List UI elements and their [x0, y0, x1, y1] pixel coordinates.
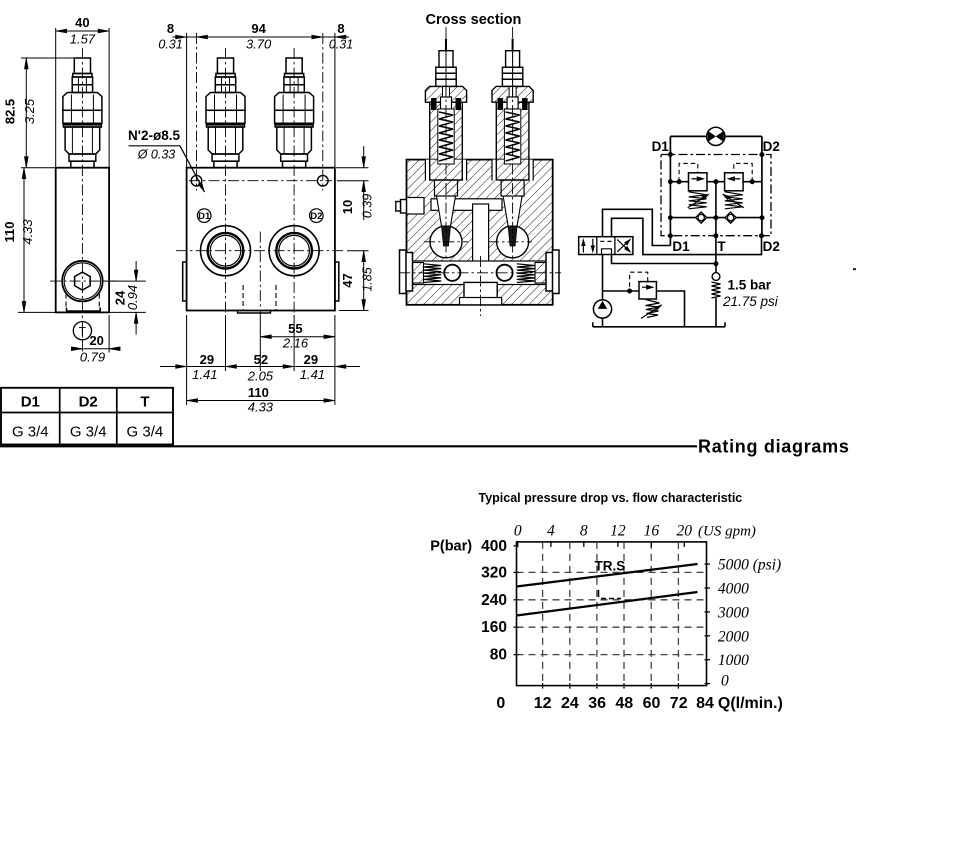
- svg-text:0: 0: [721, 673, 729, 690]
- svg-text:Cross section: Cross section: [426, 12, 522, 28]
- svg-text:T: T: [717, 239, 726, 254]
- svg-text:Q(l/min.): Q(l/min.): [718, 695, 783, 712]
- svg-text:29: 29: [200, 352, 214, 367]
- svg-text:3000: 3000: [717, 604, 749, 621]
- svg-text:TR.S: TR.S: [595, 559, 626, 574]
- svg-text:5000 (psi): 5000 (psi): [718, 557, 781, 574]
- svg-text:60: 60: [643, 695, 661, 712]
- svg-text:12: 12: [534, 695, 552, 712]
- svg-text:160: 160: [481, 619, 507, 636]
- svg-text:10: 10: [340, 200, 355, 214]
- svg-text:20: 20: [677, 523, 693, 540]
- svg-text:12: 12: [610, 523, 626, 540]
- svg-text:0: 0: [496, 695, 505, 712]
- svg-text:4.33: 4.33: [20, 219, 35, 245]
- svg-text:8: 8: [167, 21, 174, 36]
- svg-text:110: 110: [248, 385, 269, 400]
- svg-text:52: 52: [254, 352, 268, 367]
- svg-text:2.05: 2.05: [247, 369, 274, 384]
- svg-text:D2: D2: [763, 139, 780, 154]
- svg-text:N'2-ø8.5: N'2-ø8.5: [128, 128, 180, 143]
- svg-text:72: 72: [670, 695, 688, 712]
- svg-text:1000: 1000: [718, 652, 749, 669]
- svg-text:D1: D1: [198, 211, 211, 222]
- svg-text:20: 20: [89, 333, 103, 348]
- svg-text:Rating diagrams: Rating diagrams: [698, 437, 850, 457]
- svg-text:0.79: 0.79: [80, 350, 105, 365]
- svg-text:1.57: 1.57: [70, 32, 96, 47]
- svg-text:0: 0: [514, 523, 522, 540]
- svg-text:240: 240: [481, 592, 507, 609]
- svg-text:D1: D1: [652, 139, 670, 154]
- svg-text:4: 4: [547, 523, 555, 540]
- svg-text:P(bar): P(bar): [430, 539, 472, 555]
- svg-text:(US gpm): (US gpm): [698, 524, 756, 540]
- svg-text:0.31: 0.31: [158, 38, 182, 52]
- svg-text:2000: 2000: [718, 628, 749, 645]
- svg-text:0.39: 0.39: [361, 194, 375, 218]
- svg-text:Ø 0.33: Ø 0.33: [137, 148, 176, 162]
- svg-text:47: 47: [340, 273, 355, 287]
- svg-text:29: 29: [304, 352, 318, 367]
- svg-text:D2: D2: [310, 211, 322, 222]
- svg-text:110: 110: [2, 222, 17, 243]
- svg-text:1.41: 1.41: [300, 367, 325, 382]
- svg-text:320: 320: [481, 564, 507, 581]
- svg-text:0.94: 0.94: [125, 285, 140, 310]
- svg-text:1.85: 1.85: [361, 267, 375, 291]
- svg-text:48: 48: [615, 695, 633, 712]
- svg-text:T: T: [140, 394, 149, 411]
- svg-text:82.5: 82.5: [3, 99, 18, 124]
- svg-text:3.70: 3.70: [246, 37, 272, 52]
- svg-text:D2: D2: [763, 239, 780, 254]
- svg-text:8: 8: [337, 21, 344, 36]
- svg-text:16: 16: [644, 523, 660, 540]
- svg-text:36: 36: [588, 695, 606, 712]
- svg-text:24: 24: [561, 695, 579, 712]
- svg-text:84: 84: [696, 695, 714, 712]
- svg-text:G 3/4: G 3/4: [12, 424, 49, 441]
- svg-text:G 3/4: G 3/4: [70, 424, 107, 441]
- svg-text:0.31: 0.31: [329, 38, 353, 52]
- svg-text:Typical pressure drop vs. flow: Typical pressure drop vs. flow character…: [479, 491, 743, 505]
- svg-text:D1: D1: [672, 239, 690, 254]
- svg-text:8: 8: [580, 523, 588, 540]
- svg-text:4.33: 4.33: [248, 400, 274, 415]
- svg-text:21.75 psi: 21.75 psi: [722, 294, 779, 309]
- svg-text:1.41: 1.41: [192, 367, 217, 382]
- svg-text:D1: D1: [21, 394, 40, 411]
- svg-text:400: 400: [481, 538, 507, 555]
- svg-text:2.16: 2.16: [282, 336, 309, 351]
- svg-text:D2: D2: [79, 394, 98, 411]
- svg-text:80: 80: [490, 647, 507, 664]
- svg-text:G 3/4: G 3/4: [127, 424, 164, 441]
- svg-text:94: 94: [251, 21, 266, 36]
- svg-text:T: T: [79, 324, 87, 338]
- svg-text:55: 55: [288, 321, 302, 336]
- svg-text:4000: 4000: [718, 581, 749, 598]
- svg-text:40: 40: [75, 15, 89, 30]
- svg-text:1.5 bar: 1.5 bar: [728, 278, 772, 293]
- svg-text:3.25: 3.25: [22, 98, 37, 124]
